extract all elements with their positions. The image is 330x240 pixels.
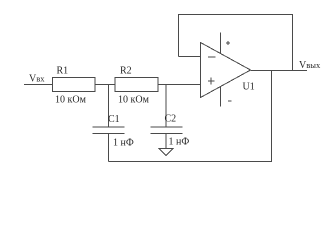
op-amp supply minus marker	[228, 100, 232, 102]
wire inverting input from feedback	[179, 56, 201, 58]
svg-text:Vвх: Vвх	[29, 74, 45, 85]
op-amp negative supply pin	[220, 86, 222, 107]
wire R1 to R2	[95, 84, 115, 86]
capacitor C2	[151, 126, 183, 128]
wire R2 to op-amp noninverting input	[158, 84, 201, 86]
resistor R1	[53, 78, 96, 92]
svg-text:C1: C1	[108, 114, 120, 125]
resistor R2	[115, 78, 158, 92]
svg-text:C2: C2	[165, 114, 177, 125]
wire C2 bottom to ground	[165, 134, 167, 149]
svg-text:Vвых: Vвых	[299, 60, 321, 71]
wire output to Vвых	[251, 70, 308, 72]
op-amp inverting input marker	[208, 56, 216, 58]
svg-text:10 кОм: 10 кОм	[55, 95, 87, 106]
node A junction to C1	[108, 85, 110, 128]
capacitor C1	[93, 126, 125, 128]
op-amp positive supply pin	[220, 33, 222, 55]
wire input from Vвх to R1	[24, 84, 53, 86]
svg-text:U1: U1	[243, 82, 255, 93]
op-amp noninverting input marker	[208, 80, 215, 82]
svg-text:1 нФ: 1 нФ	[169, 137, 190, 148]
node B junction to C2	[165, 85, 167, 128]
svg-text:1 нФ: 1 нФ	[113, 138, 134, 149]
svg-text:10 кОм: 10 кОм	[118, 95, 150, 106]
wire C1 bottom to feedback bottom wire	[108, 134, 110, 162]
op-amp U1 triangle	[201, 43, 251, 98]
wire feedback top loop	[179, 15, 293, 71]
svg-text:R2: R2	[120, 66, 132, 77]
svg-text:R1: R1	[57, 66, 69, 77]
ground	[159, 149, 173, 156]
wire bottom feedback from C1 to output node	[109, 71, 272, 162]
op-amp supply plus marker	[226, 42, 230, 44]
